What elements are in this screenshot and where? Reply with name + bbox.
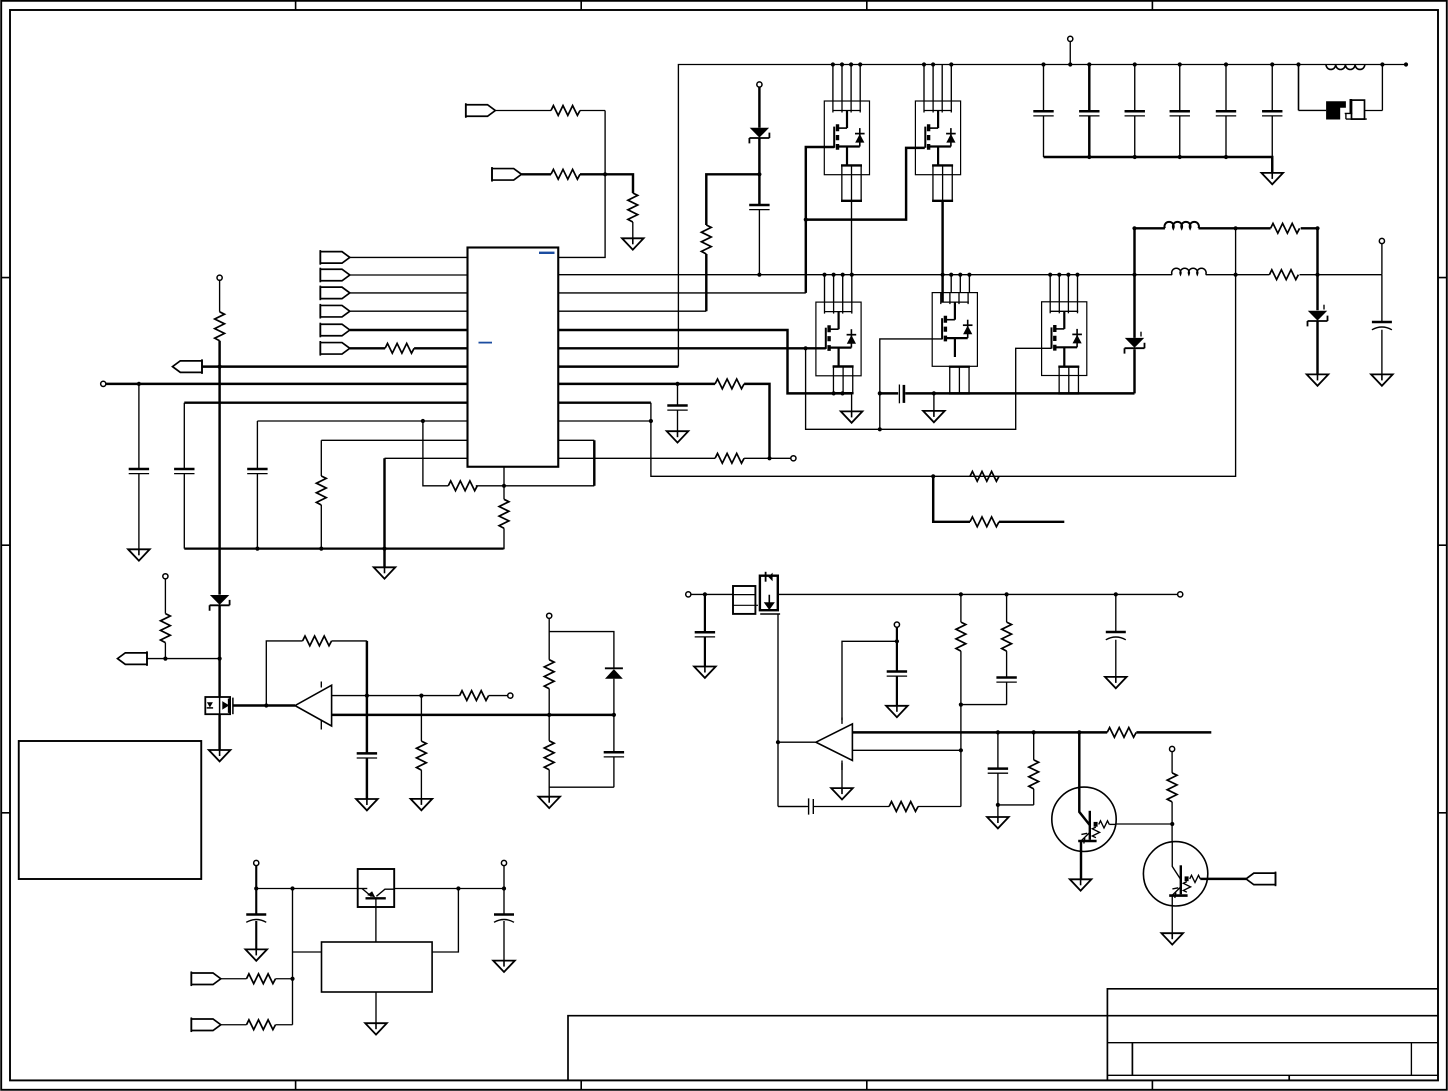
wire PB to R2 xyxy=(522,173,552,175)
wire R10 lower xyxy=(164,643,166,659)
zener diode D1 xyxy=(749,128,769,144)
wire aux5v to pass fet xyxy=(691,593,733,595)
node rail2 D4 xyxy=(1315,273,1319,277)
wire LDO ctl drop xyxy=(292,889,294,1025)
node gate row kelvin xyxy=(804,346,808,350)
wire U1 r11 left xyxy=(321,439,467,441)
wire C7 branch xyxy=(704,594,706,666)
ground C2 xyxy=(128,549,150,560)
terminal R25 top xyxy=(1170,746,1175,751)
resistor R19 xyxy=(889,802,918,812)
resistor R18 xyxy=(1107,728,1136,738)
node div mid xyxy=(959,703,963,707)
U1 link mark top xyxy=(539,252,555,254)
node PA/PB junction xyxy=(603,172,607,176)
capacitor bank C11 xyxy=(1079,62,1099,159)
port P3 xyxy=(320,286,350,301)
wire R25 chain xyxy=(1171,752,1173,773)
port P8 xyxy=(191,1017,221,1032)
node rail2 fb xyxy=(1234,273,1238,277)
resistor R1 xyxy=(551,106,580,116)
wire U3 inp upper xyxy=(852,731,1211,733)
wire vref chain mid xyxy=(218,341,220,595)
fuse F1 body xyxy=(1326,101,1346,119)
Q2A rail2 node dots xyxy=(822,273,854,277)
node Q3 base xyxy=(1170,822,1174,826)
node 5v R16 xyxy=(959,592,963,596)
wire vertical to U1 pin r1 xyxy=(558,111,605,258)
resistor R11 fb xyxy=(303,636,332,646)
wire R16 branch xyxy=(960,594,962,622)
capacitor C1 xyxy=(749,205,769,210)
node R9 bus xyxy=(319,547,323,551)
resistor R21 xyxy=(1269,270,1298,280)
resistor R16 vertical xyxy=(956,622,966,651)
capacitor bank C13 xyxy=(1170,62,1190,159)
terminal R10 top xyxy=(163,574,168,579)
frame zone ticks bottom xyxy=(296,1080,1153,1089)
node fb tie xyxy=(365,694,369,698)
resistor R9 vertical xyxy=(316,476,326,505)
wire U1 bottom pin xyxy=(503,467,505,500)
wire QB3 emitter in xyxy=(358,888,368,890)
capacitor bank C14 xyxy=(1216,62,1236,159)
terminal VOUT2 xyxy=(1379,238,1384,243)
wire C16 branch xyxy=(1115,594,1117,677)
node r10 fb xyxy=(649,419,653,423)
resistor R20 xyxy=(1271,223,1300,233)
wire PA to R1 xyxy=(495,110,551,112)
capacitor C9 polarized xyxy=(1372,322,1392,330)
node C20 tap xyxy=(996,730,1000,734)
wire bead shunt to F1 xyxy=(1299,109,1327,111)
wire D4 branch xyxy=(1316,228,1318,374)
Q1B drain pins to rail xyxy=(924,65,951,102)
node r8 cap tap xyxy=(675,382,679,386)
opamp U3 xyxy=(816,718,853,771)
Q2C drain pins to rail2 xyxy=(1050,275,1077,302)
resistor R27 xyxy=(247,1020,276,1030)
node bus ground xyxy=(932,391,936,395)
wire C3 branch xyxy=(183,403,185,549)
frame zone ticks left xyxy=(1,278,10,813)
wire U4 gnd pin xyxy=(375,992,377,1023)
capacitor C18 xyxy=(887,672,907,677)
ground under R3 xyxy=(622,238,644,249)
wire R15 to ground xyxy=(549,757,614,797)
ground C7 xyxy=(694,667,716,678)
wire R10 upper xyxy=(164,579,166,614)
port PO2 out left xyxy=(118,651,148,666)
ground C18 xyxy=(886,706,908,717)
resistor R29 xyxy=(715,453,744,463)
wire bar C20 R24 xyxy=(998,804,1034,806)
node U2 fb xyxy=(264,703,268,707)
ground QB1 xyxy=(209,750,231,761)
source bus dots left xyxy=(832,391,845,395)
port P4 xyxy=(320,304,350,319)
wire R1 to corner xyxy=(580,110,605,112)
capacitor bank C10 xyxy=(1033,62,1053,157)
wire P6 to R6 xyxy=(350,347,385,349)
port PO1 out left xyxy=(173,359,203,374)
wire output cap branch xyxy=(1381,275,1383,375)
wire R27 to node xyxy=(276,1024,293,1026)
node D3 rail2 xyxy=(1132,273,1136,277)
port P6 xyxy=(320,341,350,356)
wire QB3 out rail xyxy=(394,888,504,890)
ground Q2A xyxy=(841,411,863,422)
terminal vref top xyxy=(217,275,222,280)
mosfet module Q1A xyxy=(824,101,869,175)
node divider left xyxy=(547,713,551,717)
frame zone ticks top xyxy=(296,1,1153,10)
wire R23 stub xyxy=(999,521,1064,523)
resistor R14 vertical xyxy=(544,660,554,689)
schottky D4 xyxy=(1308,311,1328,327)
schottky D3 xyxy=(1125,338,1145,354)
node kelvin mid xyxy=(878,427,882,431)
node gate bus xyxy=(804,218,808,222)
wire P8 to R27 xyxy=(221,1024,247,1026)
title block right box xyxy=(1107,989,1438,1081)
wire reg left pin xyxy=(293,951,322,953)
capacitor C17 xyxy=(996,678,1016,683)
port PO3 xyxy=(1246,872,1276,887)
capacitor C23 xyxy=(667,406,687,411)
capacitor C21 polarized xyxy=(246,915,266,923)
D4 tick xyxy=(1323,305,1325,310)
node comp mid xyxy=(502,484,506,488)
wire QB1 gate to opamp U2 xyxy=(233,704,295,706)
wire fb tap branch xyxy=(933,476,970,522)
wire P4 to U1 xyxy=(350,310,468,312)
wire C1 to rail2 xyxy=(758,210,760,275)
wire U1 r10 right xyxy=(558,420,651,422)
terminal zener top xyxy=(757,82,762,87)
wire R24 down xyxy=(1033,789,1035,805)
capacitor C19 series xyxy=(809,798,814,814)
wire vref chain upper xyxy=(219,280,221,312)
port PB input xyxy=(492,167,522,182)
wire comp row xyxy=(423,421,594,486)
inductor L1 bead xyxy=(1326,65,1365,70)
resistor R17 vertical xyxy=(1002,622,1012,651)
wire P3 to U1 xyxy=(350,292,468,294)
mosfet module Q2C xyxy=(1042,302,1087,376)
pass fet QB2 xyxy=(760,572,780,614)
capacitor C8 series bus xyxy=(898,385,900,404)
capacitor C20 xyxy=(988,769,1008,774)
wire P5 to U1 xyxy=(350,329,468,331)
wire feedback sense drop xyxy=(651,228,1236,476)
Q1A rail node dots xyxy=(831,62,863,66)
node Q3 collector xyxy=(1077,730,1081,734)
wire QB2 gate drop xyxy=(778,614,807,807)
wire top rail riser xyxy=(678,65,1406,367)
wire terminal to zener D1 xyxy=(758,87,760,128)
wire R17 to C17 xyxy=(1006,651,1008,705)
wire C23 branch xyxy=(677,384,679,431)
terminal isense xyxy=(508,693,513,698)
wire LDO in drop xyxy=(255,866,257,950)
source bus right xyxy=(880,392,1135,394)
wire C4 branch xyxy=(256,421,258,549)
wire P2 to U1 xyxy=(350,274,468,276)
node C20 R24 bar xyxy=(996,803,1000,807)
wire ref chain xyxy=(896,627,898,706)
wire D1 down xyxy=(758,138,760,205)
node divider right xyxy=(612,713,616,717)
node lower inp tie xyxy=(959,748,963,752)
node C1 rail2 xyxy=(757,273,761,277)
node D1 net xyxy=(757,172,761,176)
ground C9 xyxy=(1371,374,1393,385)
wire U1 r11 to comp row xyxy=(558,439,594,441)
resistor R13 xyxy=(460,691,489,701)
terminal LDO out xyxy=(501,860,506,865)
port P7 xyxy=(191,971,221,986)
wire R24 branch xyxy=(1033,732,1035,760)
wire LDO in rail xyxy=(256,888,357,890)
node sense port xyxy=(218,657,222,661)
wire R6 to U1 xyxy=(414,347,467,349)
note box lower-left xyxy=(19,741,202,879)
capacitor bank C12 xyxy=(1125,62,1145,159)
zener D2 xyxy=(210,595,230,611)
wire PO2 to node xyxy=(147,658,220,660)
wire R12 to ground xyxy=(420,770,422,799)
inductor L3 xyxy=(1172,268,1206,274)
resistor R15 vertical xyxy=(544,741,554,770)
ground D4 xyxy=(1307,374,1329,385)
transistor Q4 digital xyxy=(1143,842,1207,934)
resistor R8 vertical xyxy=(499,499,509,528)
wire U1 r3 to gate bus xyxy=(558,292,806,294)
wire U2 inp upper xyxy=(332,695,460,697)
resistor R22 xyxy=(970,471,999,481)
capacitor C6 xyxy=(604,752,624,757)
U1 link mark left xyxy=(479,342,493,344)
pass fet package box xyxy=(733,586,758,614)
wire R29 to terminal xyxy=(744,457,791,459)
capacitor C7 xyxy=(695,632,715,637)
Q1B source bold to Q2B pin xyxy=(941,201,943,302)
resistor R28 xyxy=(715,379,744,389)
wire R25 to Q4 xyxy=(1171,802,1173,842)
wire comp drop xyxy=(593,440,595,486)
ground r12 xyxy=(374,567,396,578)
node vref chain xyxy=(218,365,222,369)
capacitor bank C15 xyxy=(1262,62,1282,157)
node LDO in xyxy=(254,886,258,890)
fuse F1 holder xyxy=(1345,99,1367,119)
wire R13 to terminal xyxy=(489,695,508,697)
resistor R4 vertical xyxy=(701,225,711,254)
wire div mid link xyxy=(961,704,1007,706)
wire R16 down xyxy=(960,651,962,806)
mosfet module Q2B xyxy=(932,293,977,367)
wire gate bus vertical xyxy=(806,147,835,293)
rail1b output top xyxy=(1135,227,1318,229)
node bead left xyxy=(1296,62,1300,66)
capacitor C5 xyxy=(357,753,377,758)
resistor R24 vertical xyxy=(1029,760,1039,789)
wire R26 to node xyxy=(276,978,293,980)
wire R11 to drop xyxy=(332,640,367,642)
node R12 tap xyxy=(419,694,423,698)
wire r12 ground drop xyxy=(383,458,385,567)
wire R28 to r12 xyxy=(744,384,769,458)
wire Q4 base to port xyxy=(1208,878,1246,880)
wire 5v rail xyxy=(778,593,1178,595)
port P5 xyxy=(320,323,350,338)
Q2A drain pins to rail2 xyxy=(825,275,852,302)
frame zone ticks right xyxy=(1438,278,1447,813)
port P1 xyxy=(320,250,350,265)
mosfet module Q2A xyxy=(816,302,861,376)
ground cap bank xyxy=(1261,173,1283,184)
ground C16 xyxy=(1105,677,1127,688)
Q1A source to rail2 xyxy=(851,201,853,275)
node P7 row xyxy=(290,977,294,981)
wire Q3 base xyxy=(1116,823,1172,825)
node r10 left tap xyxy=(421,419,425,423)
capacitor C4 xyxy=(247,469,267,474)
terminal LDO in xyxy=(254,860,259,865)
wire C20 branch xyxy=(997,732,999,817)
resistor R2 xyxy=(551,169,580,179)
Q2C rail2 node dots xyxy=(1048,273,1080,277)
wire U3 out xyxy=(778,741,816,743)
wire R12 branch xyxy=(420,696,422,742)
wire P7 to R26 xyxy=(221,978,247,980)
node top rail end xyxy=(1404,62,1408,66)
capacitor C2 xyxy=(129,469,149,474)
ground source bus xyxy=(923,411,945,422)
wire gate Q2B riser xyxy=(880,339,942,429)
QB1 gate bar xyxy=(232,698,234,715)
node r12 bus xyxy=(382,547,386,551)
node 5v C16 xyxy=(1114,592,1118,596)
wire U1 r8 left to terminal xyxy=(106,383,468,385)
terminal VIN xyxy=(1068,36,1073,41)
wire C22 branch xyxy=(503,866,505,961)
ground U4 xyxy=(365,1023,387,1034)
node bead right xyxy=(1380,62,1384,66)
capacitor C3 xyxy=(174,469,194,474)
wire U3 vplus xyxy=(842,641,897,720)
diode D5 up xyxy=(605,668,623,678)
inductor L2 xyxy=(1165,222,1199,228)
wire C2 branch xyxy=(138,384,140,549)
bus AGND lower-left xyxy=(184,547,503,549)
ground C23 xyxy=(667,431,689,442)
wire reg right pin xyxy=(432,889,458,953)
Q1A drain pins to rail xyxy=(833,65,860,102)
D3 tick xyxy=(1140,332,1142,337)
title block big left box xyxy=(568,1016,1438,1081)
wire PO1 to U1 r7 xyxy=(202,365,468,367)
wire R9 to bus xyxy=(320,505,322,549)
ground C21 xyxy=(245,949,267,960)
node C22 tap xyxy=(456,886,460,890)
resistor R5 vertical xyxy=(215,312,225,341)
wire integrator fb xyxy=(778,806,961,808)
resistor R3 vertical xyxy=(628,193,638,222)
wire R2 to corner xyxy=(580,174,633,193)
node R24 tap xyxy=(1032,730,1036,734)
capacitor C22 polarized xyxy=(494,915,514,923)
resistor R26 xyxy=(247,974,276,984)
ground R12 xyxy=(411,799,433,810)
ground Q3 xyxy=(1070,879,1092,890)
resistor R6 xyxy=(385,343,414,353)
wire D3 up to rails xyxy=(1133,228,1135,338)
terminal 5v end xyxy=(1178,592,1183,597)
wire P1 to U1 xyxy=(350,256,468,258)
node fb tap xyxy=(931,474,935,478)
node ref tie xyxy=(895,639,899,643)
node r12 tie xyxy=(767,456,771,460)
transistor Q3 digital xyxy=(1052,732,1116,879)
mosfet QB1 battery switch xyxy=(205,697,230,714)
wire gate bus horizontal xyxy=(806,148,925,220)
wire fb drop C5 xyxy=(366,641,368,799)
wire U1 r8 right xyxy=(558,383,715,385)
wire U1 r9 left xyxy=(184,401,467,403)
wire R3 to ground xyxy=(632,222,634,238)
Q1B rail node dots xyxy=(922,62,954,66)
wire D1 node to R4 branch xyxy=(706,174,759,225)
wire D2 to QB1 xyxy=(218,605,220,697)
wire F1 to right riser xyxy=(1365,110,1383,112)
wire U1 r12 right xyxy=(558,457,715,459)
regulator U4 xyxy=(322,942,433,992)
ground C22 xyxy=(493,961,515,972)
wire VIN to rail xyxy=(1069,42,1071,65)
node source bus tie xyxy=(878,391,882,395)
wire U1 r9 xyxy=(558,401,651,403)
wire divider top xyxy=(549,618,614,668)
ground Q4 xyxy=(1161,933,1183,944)
node R20 out xyxy=(1315,226,1319,230)
ground U3 xyxy=(831,788,853,799)
wire D5 to C6 xyxy=(613,679,615,753)
node cap out xyxy=(502,886,506,890)
wire R8 to bus xyxy=(503,528,505,548)
terminal imon xyxy=(791,456,796,461)
resistor R10 vertical xyxy=(161,614,171,643)
ground C20 xyxy=(987,817,1009,828)
ground divider xyxy=(538,797,560,808)
wire U3 gnd stub xyxy=(841,763,843,788)
wire kelvin drop xyxy=(806,348,1052,429)
node C7 tap xyxy=(703,592,707,596)
rail2 VDRAIN xyxy=(558,274,1382,276)
node Q1B source rail2 xyxy=(941,273,945,277)
opamp U2 xyxy=(295,682,332,730)
wire U2 fb loop xyxy=(266,641,302,706)
resistor R12 vertical xyxy=(417,741,427,770)
Q2B drain pins to rail2 xyxy=(951,275,969,293)
wire R17 branch xyxy=(1006,594,1008,622)
wire U2 inp lower xyxy=(332,714,614,716)
node C2 tap xyxy=(137,382,141,386)
wire U1 r12 left xyxy=(385,457,468,459)
node LDO branch xyxy=(290,886,294,890)
resistor R25 vertical xyxy=(1167,773,1177,802)
